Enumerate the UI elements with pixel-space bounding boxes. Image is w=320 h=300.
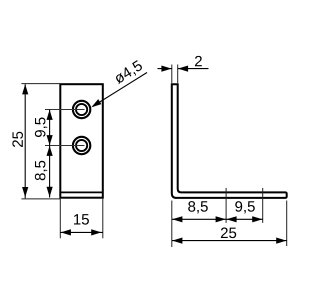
arrow left 25 horizontal [172, 238, 182, 244]
extension line right (15 dim) [102, 198, 104, 238]
arrow up 25 [22, 84, 28, 94]
arrow right 8,5 [216, 216, 226, 222]
arrow left 8,5 [172, 216, 182, 222]
arrow down 8,5 [47, 187, 53, 197]
hole H2 outer circle [73, 137, 90, 154]
arrow up 8,5 [47, 146, 53, 156]
hole H1 outer circle [73, 101, 90, 118]
extension line right (2 dim) [177, 65, 179, 84]
leader line for hole diameter [93, 73, 147, 107]
arrow down 25 [22, 187, 28, 197]
label 15 [74, 214, 89, 224]
arrow right-pointing (2 dim) [161, 66, 171, 72]
hole H1 inner circle [76, 104, 87, 115]
hole H2 inner circle [76, 140, 87, 151]
bend line [60, 191, 103, 193]
label 9,5 [235, 201, 255, 213]
dimension line 2 left tail [158, 68, 172, 70]
extension line left bottom (side view) [171, 201, 173, 248]
arrow up 9,5 [47, 110, 53, 120]
extension line left (2 dim) [171, 65, 173, 84]
label 25 horizontal [221, 228, 236, 239]
label 8,5 [188, 201, 208, 213]
label 9,5 vertical [35, 118, 47, 138]
arrow left 9,5 [226, 216, 236, 222]
dimension line 15 [60, 231, 103, 233]
label 8,5 vertical [35, 161, 47, 181]
arrow right 25 horizontal [276, 238, 286, 244]
extension line right bottom (side view) [286, 201, 288, 247]
dimension line 2 right tail [178, 68, 209, 70]
extension line top (25 dim) [21, 83, 60, 85]
L-profile outline (side view) [172, 84, 287, 198]
extension line hole position b (side view) [262, 188, 264, 223]
arrow left-pointing (2 dim) [178, 66, 188, 72]
extension line hole position a (side view) [225, 188, 227, 223]
extension line bottom (25 dim) [21, 198, 60, 200]
arrow left 15 [61, 229, 71, 235]
extension line left (15 dim) [59, 198, 61, 238]
label 25 vertical [12, 132, 23, 147]
leader arrowhead [91, 99, 101, 107]
label 2 [195, 56, 202, 66]
plate outline (front view of bracket leg) [60, 84, 103, 198]
dimension line 8,5 / 9,5 horizontal [172, 218, 263, 220]
dimension line 25 horizontal [172, 240, 287, 242]
dimension line 9,5 / 8,5 vertical [49, 110, 51, 198]
label diameter 4,5 [113, 60, 144, 86]
arrow down 9,5 [47, 135, 53, 145]
arrow right 9,5 [252, 216, 262, 222]
arrow right 15 [91, 229, 101, 235]
centerline hole H2 [45, 145, 85, 147]
dimension line 25 vertical [24, 84, 26, 198]
centerline hole H1 [45, 109, 85, 111]
